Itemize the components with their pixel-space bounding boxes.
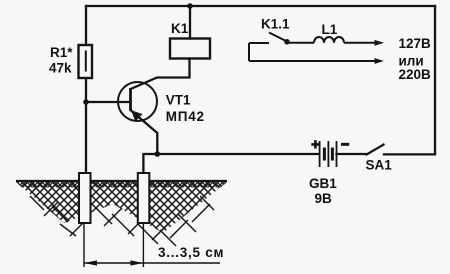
wire top rail <box>86 5 435 7</box>
svg-text:VT1: VT1 <box>166 93 191 108</box>
node C (emitter junction) <box>155 151 161 157</box>
svg-text:47k: 47k <box>49 61 72 76</box>
resistor R1 <box>79 45 93 78</box>
svg-text:МП42: МП42 <box>166 109 205 124</box>
dimension arrow right <box>130 260 143 265</box>
svg-text:127В: 127В <box>399 36 432 51</box>
wire battery to switch <box>337 153 366 155</box>
wire bottom rail left <box>157 153 319 155</box>
svg-text:9В: 9В <box>315 191 333 206</box>
relay K1 <box>170 39 210 59</box>
battery GB1 <box>320 141 337 167</box>
wire upper output arrow <box>344 42 376 44</box>
label − <box>341 143 349 146</box>
svg-text:R1*: R1* <box>50 45 73 60</box>
dimension arrow left <box>84 260 97 265</box>
label + <box>311 140 319 148</box>
wire emitter branch to right electrode <box>143 154 157 173</box>
inductor L1 <box>314 37 344 43</box>
wire lower output arrow <box>249 60 376 62</box>
wire base <box>86 101 130 103</box>
contact K1.1 <box>249 33 314 62</box>
transistor Q1 VT1 <box>118 82 157 122</box>
svg-text:GB1: GB1 <box>309 176 337 191</box>
wire R1 top <box>85 6 87 45</box>
svg-text:K1: K1 <box>171 21 189 36</box>
wire right rail <box>434 6 436 154</box>
svg-text:3...3,5 см: 3...3,5 см <box>158 245 224 260</box>
wire R1 bottom to electrode <box>85 78 87 173</box>
node B (base junction) <box>83 99 89 105</box>
switch SA1 <box>366 144 385 155</box>
svg-text:L1: L1 <box>322 22 338 37</box>
electrode E1 (left) <box>79 173 91 223</box>
node A (top junction) <box>187 3 193 9</box>
wire relay top <box>189 6 191 39</box>
ground earth hatch <box>16 181 227 246</box>
svg-text:K1.1: K1.1 <box>261 17 290 32</box>
wire switch to right rail <box>384 153 435 155</box>
wire emitter <box>131 110 158 154</box>
svg-text:220В: 220В <box>399 67 432 82</box>
dimension lines <box>84 223 220 267</box>
wire collector <box>131 59 190 90</box>
svg-text:SA1: SA1 <box>366 158 393 173</box>
electrode E2 (right) <box>138 173 150 223</box>
